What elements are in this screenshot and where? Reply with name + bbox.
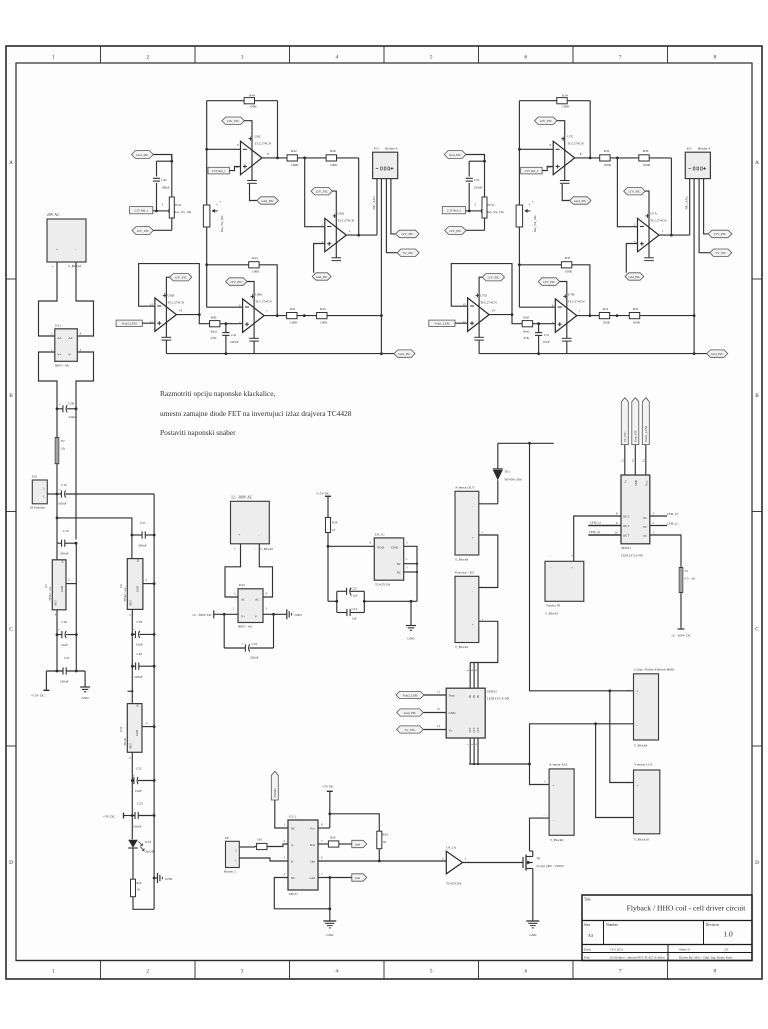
svg-text:Res2: Res2: [523, 329, 530, 333]
svg-text:100K: 100K: [643, 163, 651, 167]
svg-text:A: A: [9, 160, 13, 166]
svg-text:4: 4: [336, 55, 339, 61]
svg-text:T_Block5: T_Block5: [455, 645, 469, 649]
svg-text:IN: IN: [477, 695, 480, 698]
bridge rectifier D13: [51, 324, 82, 368]
port Vout2_LEM: [116, 320, 155, 326]
svg-text:Drawn By: MSc - Dipl. Ing. De: Drawn By: MSc - Dipl. Ing. Dejan Krjia: [679, 956, 733, 960]
svg-text:OUT: OUT: [469, 727, 472, 733]
transformer block T_Block7 Vmetar IN: [545, 554, 584, 616]
svg-text:Vout: Vout: [449, 694, 455, 698]
svg-text:78S10 / 2A: 78S10 / 2A: [123, 587, 127, 602]
resistor R29: [377, 831, 388, 862]
resistor R43: [207, 256, 279, 317]
wire fuse to switch node: [56, 464, 59, 496]
svg-text:330nF: 330nF: [60, 552, 69, 556]
svg-text:T_Block7: T_Block7: [545, 612, 559, 616]
svg-text:P13: P13: [374, 147, 380, 151]
svg-text:V-: V-: [255, 615, 258, 619]
svg-text:R30: R30: [523, 315, 529, 319]
svg-text:IN: IN: [473, 695, 476, 698]
port 2.5V Ref 2.5V Ref_2: [521, 167, 554, 174]
svg-text:NC: NC: [291, 826, 295, 830]
svg-text:+: +: [58, 628, 60, 632]
svg-text:GND: GND: [326, 933, 334, 937]
potentiometer RV40: [203, 200, 224, 233]
svg-text:R26: R26: [137, 881, 143, 885]
svg-text:OUT: OUT: [129, 600, 133, 606]
port Gnd_PIC below U7C: [562, 184, 591, 204]
svg-text:6N137: 6N137: [289, 892, 298, 896]
svg-text:+: +: [544, 780, 546, 784]
wire flyback output node: [498, 442, 554, 445]
transformer T_Block5: [231, 496, 274, 552]
regulator U5 78S15: [44, 543, 76, 671]
wire header pin1: [376, 179, 378, 236]
svg-text:5V_PIC: 5V_PIC: [623, 432, 627, 442]
svg-text:5V_PIC: 5V_PIC: [403, 251, 415, 255]
svg-text:T_Block3: T_Block3: [68, 264, 82, 268]
wire header pin2 to ground rail: [693, 179, 696, 355]
capacitor C23: [124, 802, 155, 829]
svg-text:R43: R43: [252, 256, 258, 260]
port 12V_PIC at U7B: [538, 278, 571, 354]
regulator U6 78S10: [119, 558, 154, 704]
svg-text:Number: Number: [606, 923, 619, 927]
wire long feed to cell: [530, 443, 634, 692]
wire to U9 VDD: [328, 541, 374, 547]
port Gnd_PIC at C32: [444, 151, 486, 163]
svg-text:1K: 1K: [383, 840, 388, 844]
svg-text:TC427CPA: TC427CPA: [446, 882, 462, 886]
svg-text:umesto zamajne diode FET na in: umesto zamajne diode FET na invertujuci …: [160, 409, 352, 418]
port Gnd_PIC rail end: [394, 350, 415, 357]
svg-text:U9_1A: U9_1A: [446, 845, 456, 849]
svg-text:Q1: Q1: [537, 856, 541, 860]
svg-text:3: 3: [241, 969, 244, 975]
svg-text:20V AC: 20V AC: [47, 213, 60, 217]
svg-text:+15V DC: +15V DC: [316, 492, 330, 496]
wire SENS1 out8: [574, 516, 621, 561]
svg-text:GND: GND: [165, 877, 173, 881]
svg-text:2.5V Ref_1: 2.5V Ref_1: [134, 209, 148, 213]
svg-text:TLC274CN: TLC274CN: [255, 299, 272, 303]
svg-text:100K: 100K: [249, 105, 257, 109]
wire to inverting input A: [305, 158, 325, 227]
svg-text:100: 100: [257, 838, 262, 842]
svg-text:12V_PIC: 12V_PIC: [227, 119, 240, 123]
svg-text:N type [400 - 1500]V: N type [400 - 1500]V: [537, 864, 565, 868]
svg-text:GND: GND: [136, 586, 140, 592]
svg-text:T_Block5: T_Block5: [260, 547, 274, 551]
port 12V_PIC header: [396, 230, 420, 238]
svg-text:Celija / Pulsar Flyback HHO: Celija / Pulsar Flyback HHO: [634, 668, 675, 672]
port 12V_PIC at U8A: [311, 187, 341, 260]
svg-text:GND: GND: [60, 586, 64, 592]
ground right chain: [154, 873, 173, 883]
op-amp U8B: [239, 292, 272, 332]
wire right rail: [153, 494, 156, 909]
ground U9: [406, 601, 416, 640]
wire U9 GND pin: [404, 546, 418, 601]
wire transformer to bridge: [39, 262, 94, 336]
svg-text:5: 5: [430, 969, 433, 975]
svg-text:Vout2_LEM: Vout2_LEM: [122, 322, 137, 326]
resistor R39: [326, 518, 338, 602]
potentiometer RV41: [169, 155, 191, 231]
svg-text:+: +: [472, 623, 474, 627]
wire net rail right: [518, 101, 521, 308]
svg-text:2/3: 2/3: [724, 948, 729, 952]
svg-text:+: +: [234, 547, 236, 551]
svg-text:13: 13: [437, 724, 441, 728]
wire SENS2 bottom loop: [467, 738, 530, 765]
svg-text:LEM_a3: LEM_a3: [667, 512, 678, 516]
svg-text:C26: C26: [137, 652, 143, 656]
wire P9 pin1 to K: [239, 858, 288, 861]
wire header pin4: [391, 179, 396, 234]
resistor R44: [207, 93, 278, 108]
driver U9_1C TC427CPA: [374, 533, 408, 587]
port 5V_PIC header: [710, 249, 732, 257]
svg-text:C31: C31: [544, 333, 550, 337]
svg-text:8: 8: [714, 55, 717, 61]
resistor R26: [131, 879, 155, 909]
svg-text:100K: 100K: [604, 163, 612, 167]
svg-text:C18: C18: [252, 642, 258, 646]
svg-text:6: 6: [525, 969, 528, 975]
svg-text:Gnd_PIC: Gnd_PIC: [711, 352, 724, 356]
svg-text:Out: Out: [310, 859, 315, 863]
svg-text:R33: R33: [565, 256, 571, 260]
port 5V_PIC at SENS2: [397, 724, 447, 733]
svg-text:10: 10: [332, 528, 336, 532]
svg-text:V+: V+: [57, 352, 61, 356]
svg-text:TC427CPA: TC427CPA: [375, 583, 391, 587]
diode D11 BY459-1500: [493, 443, 522, 504]
svg-text:12V_PIC: 12V_PIC: [315, 190, 328, 194]
port 12V_PIC at U8D: [162, 274, 192, 354]
port 12V_PIC at U8C: [222, 117, 257, 183]
svg-text:U7D: U7D: [480, 294, 487, 298]
port Vout2_LEM at SENS2: [396, 690, 446, 699]
wire header pin3: [386, 179, 397, 253]
svg-text:C: C: [9, 626, 13, 632]
potentiometer RV30: [516, 200, 537, 233]
svg-text:100K: 100K: [633, 320, 641, 324]
svg-text:V-metar LCL: V-metar LCL: [634, 763, 653, 767]
svg-text:12 - 300V DC: 12 - 300V DC: [671, 634, 692, 638]
svg-text:220uF: 220uF: [250, 656, 259, 660]
svg-text:10: 10: [548, 165, 552, 169]
connector P11 Header 4: [685, 147, 710, 179]
svg-text:OUT: OUT: [129, 743, 133, 749]
wire branch to right regulator: [57, 518, 132, 559]
port 12V_PIC at U7D: [474, 274, 504, 354]
port Gnd_PIC below U8A: [312, 273, 331, 280]
port flag Gnd_PIC vertical: [632, 398, 639, 475]
svg-text:VDD: VDD: [377, 546, 385, 550]
current sensor SENS2 LEM LTS X-NP: [446, 688, 509, 738]
svg-text:14.5.2011: 14.5.2011: [610, 948, 624, 952]
svg-text:D: D: [9, 860, 13, 866]
svg-text:+: +: [472, 536, 474, 540]
svg-text:R35: R35: [633, 307, 639, 311]
svg-text:220uF: 220uF: [69, 415, 78, 419]
svg-text:R45: R45: [320, 307, 326, 311]
port Gnd_PIC rail end: [707, 350, 728, 357]
transformer block T_Block9 Potrosac: [455, 571, 484, 650]
svg-text:+15V DC: +15V DC: [31, 694, 45, 698]
power terminal +15V DC: [31, 671, 49, 698]
svg-text:4: 4: [336, 969, 339, 975]
resistor R36: [610, 149, 651, 167]
svg-text:C38: C38: [69, 402, 75, 406]
svg-text:On/Off: On/Off: [145, 850, 155, 854]
svg-text:Res_Var_10k: Res_Var_10k: [487, 210, 504, 214]
wire header pin4: [704, 179, 709, 234]
svg-text:C28: C28: [137, 620, 143, 624]
capacitor C22: [131, 767, 154, 794]
svg-text:100K: 100K: [252, 270, 260, 274]
capacitor C21: [46, 656, 85, 684]
resistor R35: [629, 307, 694, 324]
svg-text:+: +: [239, 533, 241, 537]
svg-text:OUT: OUT: [623, 524, 629, 528]
svg-text:Size: Size: [584, 923, 591, 927]
svg-text:-: -: [549, 555, 550, 559]
svg-text:Vout2_LEM: Vout2_LEM: [403, 693, 418, 697]
svg-text:OUT: OUT: [473, 727, 476, 733]
svg-text:12V_PIC: 12V_PIC: [230, 280, 243, 284]
wire optocoupler output: [318, 860, 446, 862]
svg-text:BY459-1500: BY459-1500: [505, 478, 523, 482]
wire feedback: [589, 101, 592, 160]
port flag Vout1_LEM vertical: [642, 398, 649, 475]
svg-text:100K: 100K: [562, 105, 570, 109]
svg-text:8: 8: [714, 969, 717, 975]
svg-text:-: -: [472, 504, 473, 508]
resistor R30 47K: [512, 315, 555, 340]
optocoupler U3_1 6N137: [284, 815, 324, 897]
connector P9: [224, 836, 239, 874]
svg-text:A-metar ALL: A-metar ALL: [549, 763, 568, 767]
svg-text:U7B: U7B: [568, 292, 575, 296]
svg-text:47K: 47K: [211, 336, 217, 340]
wire output A: [659, 234, 690, 236]
svg-text:7: 7: [619, 55, 622, 61]
svg-text:800V / 4A: 800V / 4A: [55, 364, 69, 368]
transformer block T_Block10 V-metar LCL: [628, 763, 660, 842]
svg-text:NC: NC: [397, 562, 401, 566]
wire feedback 2: [649, 158, 673, 237]
svg-text:LEM_a2: LEM_a2: [589, 530, 600, 534]
svg-text:12 - 300V AC: 12 - 300V AC: [231, 496, 253, 500]
svg-text:Res2: Res2: [211, 329, 218, 333]
svg-text:LEM_a2: LEM_a2: [667, 521, 678, 525]
net label LEM_a1 wire: [588, 521, 621, 526]
svg-text:100K: 100K: [320, 320, 328, 324]
svg-text:GND: GND: [407, 637, 415, 641]
svg-text:V+: V+: [241, 615, 245, 619]
resistor R45: [317, 307, 382, 324]
fuse F2: [55, 438, 65, 464]
ground U3: [323, 921, 336, 937]
svg-text:C24: C24: [352, 607, 358, 611]
svg-text:10uF: 10uF: [136, 643, 143, 647]
svg-text:+: +: [133, 774, 135, 778]
svg-text:Gnd_PIC: Gnd_PIC: [634, 430, 638, 442]
resistor R20: [318, 836, 352, 848]
svg-text:100nF: 100nF: [60, 680, 69, 684]
svg-text:R36: R36: [643, 149, 649, 153]
svg-text:100uF: 100uF: [58, 502, 67, 506]
svg-text:Vmetar IN: Vmetar IN: [546, 604, 561, 608]
svg-text:T_Block10: T_Block10: [634, 838, 649, 842]
power terminal +5V DC: [103, 813, 124, 819]
svg-text:2: 2: [147, 55, 150, 61]
svg-text:12V_PIC: 12V_PIC: [136, 229, 149, 233]
connector P10: [30, 475, 57, 510]
port Vout1_LEM: [429, 320, 468, 326]
svg-text:R39: R39: [332, 521, 338, 525]
wire source to ground: [532, 874, 534, 921]
svg-text:10uF: 10uF: [61, 643, 68, 647]
svg-text:U7C: U7C: [567, 134, 574, 138]
svg-text:R41: R41: [290, 307, 296, 311]
resistor R31: [599, 307, 629, 324]
wire feedback: [276, 101, 279, 160]
svg-text:Date:: Date:: [584, 948, 591, 952]
svg-text:GND: GND: [391, 546, 399, 550]
svg-text:D:\Elektro\..\modul FET TC427.: D:\Elektro\..\modul FET TC427.SchDoc: [610, 956, 666, 960]
svg-text:Vcc: Vcc: [310, 826, 316, 830]
wire ground rail bottom: [479, 352, 707, 355]
capacitor C38: [56, 402, 78, 420]
svg-text:+5V DC: +5V DC: [103, 815, 116, 819]
svg-text:T_Block9: T_Block9: [550, 838, 564, 842]
svg-text:+: +: [219, 200, 221, 204]
svg-text:2.5V Ref_2: 2.5V Ref_2: [447, 209, 461, 213]
svg-text:R42: R42: [291, 149, 297, 153]
svg-text:78S15 / 2A: 78S15 / 2A: [48, 586, 52, 601]
svg-text:-: -: [637, 819, 638, 823]
svg-text:D12: D12: [239, 583, 245, 587]
svg-text:OUT: OUT: [477, 727, 480, 733]
svg-text:C: C: [755, 626, 759, 632]
svg-text:12V_PIC: 12V_PIC: [487, 276, 500, 280]
svg-text:-: -: [258, 533, 259, 537]
svg-text:+: +: [133, 628, 135, 632]
svg-text:R20: R20: [330, 836, 336, 840]
svg-text:Header 4: Header 4: [698, 147, 711, 151]
svg-text:TLC274CN: TLC274CN: [568, 299, 585, 303]
svg-text:PIC_AN2: PIC_AN2: [685, 196, 689, 210]
fuse F3: [679, 568, 696, 593]
svg-text:100nF: 100nF: [474, 186, 483, 190]
port Gnd_PIC below U7A: [625, 273, 644, 280]
wire V-metar plus riser: [610, 691, 634, 783]
wire to inverting input A: [617, 158, 637, 227]
capacitor C42: [153, 161, 170, 211]
svg-text:47K: 47K: [523, 336, 529, 340]
svg-text:TLC274CN: TLC274CN: [480, 301, 497, 305]
port 12V_PIC at RV41: [132, 227, 172, 235]
svg-text:F3: F3: [685, 569, 689, 573]
svg-text:+: +: [56, 248, 58, 252]
wire drain: [530, 850, 533, 852]
ground left chain: [80, 671, 90, 700]
svg-text:100K: 100K: [290, 320, 298, 324]
svg-text:R29: R29: [383, 833, 389, 837]
svg-text:1: 1: [52, 969, 55, 975]
ground Q1: [526, 921, 539, 937]
svg-text:+: +: [571, 566, 573, 570]
svg-text:C41: C41: [231, 333, 237, 337]
svg-text:NC: NC: [397, 571, 401, 575]
svg-text:Potrosac / KS: Potrosac / KS: [455, 571, 474, 575]
port 12V_PIC at RV31: [445, 227, 485, 235]
svg-text:100nF: 100nF: [134, 675, 143, 679]
svg-text:Postaviti naponski snaber: Postaviti naponski snaber: [160, 428, 236, 437]
svg-text:Gnd_PIC: Gnd_PIC: [136, 153, 149, 157]
svg-text:-: -: [254, 547, 255, 551]
svg-text:1uF: 1uF: [352, 617, 357, 621]
svg-text:U8D: U8D: [167, 294, 174, 298]
wire non-inverting input A: [626, 244, 637, 273]
svg-text:NC: NC: [291, 876, 295, 880]
svg-text:78L05: 78L05: [123, 737, 127, 746]
transistor Q1 N-MOSFET: [523, 851, 565, 874]
capacitor C20: [56, 620, 78, 647]
svg-text:10uF: 10uF: [135, 789, 142, 793]
wire feedback 2: [337, 158, 361, 237]
svg-text:R31: R31: [603, 307, 609, 311]
svg-text:5: 5: [430, 55, 433, 61]
svg-text:100K: 100K: [603, 320, 611, 324]
op-amp U7A: [634, 212, 667, 252]
svg-text:12V_PIC: 12V_PIC: [628, 190, 641, 194]
svg-text:2: 2: [147, 969, 150, 975]
transformer block T_Block4 cell: [628, 668, 675, 748]
port 12V_PIC at U8B: [226, 278, 259, 354]
port 2.5V Ref at RV31: [442, 203, 484, 214]
svg-text:2.5V Ref_1: 2.5V Ref_1: [212, 169, 226, 173]
wire pin5 gnd: [318, 876, 352, 879]
LED D14: [128, 840, 154, 880]
svg-text:C21: C21: [64, 656, 70, 660]
svg-text:D14: D14: [145, 840, 151, 844]
svg-text:U6: U6: [119, 584, 123, 588]
svg-text:Raz: Raz: [310, 843, 316, 847]
power terminal +5V DC at U3: [318, 785, 335, 829]
svg-text:A3: A3: [588, 933, 593, 938]
resistor R33: [519, 256, 591, 317]
port Gnd arrow at pin7: [352, 840, 367, 847]
net label LEM_a2 wire right: [650, 521, 678, 525]
op-amp U7B: [552, 292, 585, 332]
svg-text:12V_PIC: 12V_PIC: [714, 232, 727, 236]
svg-text:100nF: 100nF: [230, 340, 239, 344]
port Gnd_PIC at C42: [132, 151, 174, 163]
svg-text:Sheet of: Sheet of: [679, 948, 691, 952]
svg-text:File:: File:: [584, 956, 590, 960]
svg-text:AC: AC: [68, 336, 73, 340]
svg-text:A-metar OUT: A-metar OUT: [455, 486, 476, 490]
svg-text:B: B: [755, 393, 759, 399]
op-amp U8A: [321, 212, 354, 252]
svg-text:5V_PIC: 5V_PIC: [715, 251, 727, 255]
